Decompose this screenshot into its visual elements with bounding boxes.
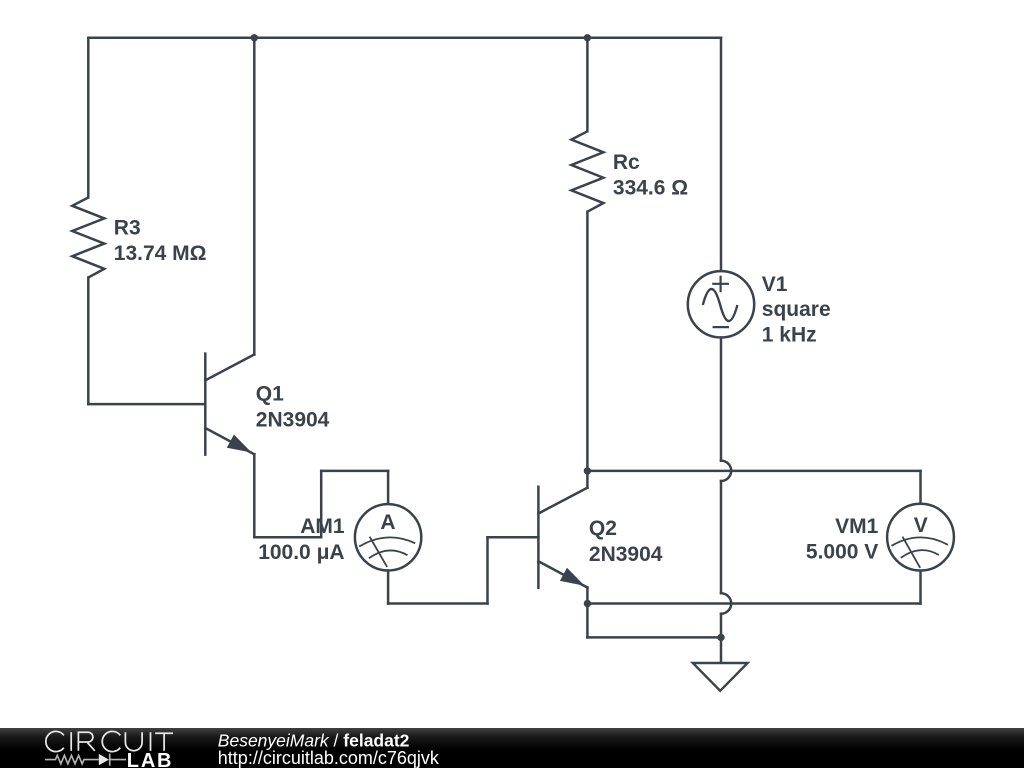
wire ground run [587,636,721,639]
junction dot ground node [717,634,724,641]
wire V1 top drop from top rail [720,38,723,271]
wire left rail upper (top rail to R3 top) [87,38,90,198]
wire Q2 base riser [486,537,489,603]
svg-text:13.74 MΩ: 13.74 MΩ [114,242,207,265]
junction dot top rail / Rc [584,34,591,41]
wire V1 bottom with hop over collector row [720,338,723,461]
svg-text:http://circuitlab.com/c76qjvk: http://circuitlab.com/c76qjvk [218,748,440,768]
CircuitLab logo: CIRCUIT letters [46,731,173,751]
wire collector row (Q2/Rc node to VM1 top) [587,470,920,473]
junction dot Q2 emitter node [584,600,591,607]
svg-text:2N3904: 2N3904 [589,543,663,566]
wire emitter row to AM1 loop [254,536,321,539]
svg-text:2N3904: 2N3904 [256,409,330,432]
wire Q2 emitter lead to emitter node [586,588,589,604]
wire AM1 top lead [387,471,390,504]
junction dot top rail / Q1 collector [251,34,258,41]
resistor R3 [72,198,104,278]
wire emitter row (emitter node to VM1 bottom) [587,602,920,605]
junction dot Q2 collector / Rc [584,467,591,474]
wire Q2 collector lead [586,471,589,488]
svg-text:A: A [380,511,395,534]
wire left rail lower (R3 bottom to Q1 base row) [87,278,90,405]
wire Q1 emitter drop [253,454,256,537]
svg-text:Q1: Q1 [256,382,284,405]
wire Q2 base run [488,536,539,539]
svg-text:V: V [914,514,928,537]
footer bar [0,728,1024,768]
transistor Q1 [205,354,254,455]
svg-text:AM1: AM1 [300,515,345,538]
wire hop arc at collector row [721,461,731,481]
wire AM1 bottom lead [387,571,390,604]
svg-text:Rc: Rc [613,151,640,174]
resistor Rc [571,131,603,211]
svg-text:LAB: LAB [127,750,174,768]
CircuitLab logo: resistor-diode strip [45,754,126,766]
voltmeter VM1 [887,504,954,571]
wire AM1 bottom run [388,602,487,605]
wire top rail [88,37,721,40]
svg-text:100.0 μA: 100.0 μA [258,541,344,564]
voltage source V1 [688,271,754,337]
wire Q1 base run [88,403,205,406]
transistor Q2 [538,487,587,588]
wire Q1 collector riser [253,38,256,355]
svg-text:square: square [762,298,831,321]
wire Rc top lead from top rail [586,38,589,132]
svg-text:V1: V1 [762,273,788,296]
wire emitter node down to ground run [586,604,589,638]
svg-text:1 kHz: 1 kHz [762,324,817,347]
svg-text:VM1: VM1 [835,515,879,538]
wire Rc bottom lead to collector row [586,212,589,471]
wire AM1 top run [321,470,388,473]
wire V1 drop to ground node [720,614,723,638]
svg-text:5.000 V: 5.000 V [806,540,878,563]
wire hop arc at emitter row [721,593,731,613]
wire V1 drop between hops [720,481,723,593]
wire VM1 bottom lead [919,571,922,604]
ground [693,637,748,690]
ammeter AM1 [355,504,421,570]
svg-text:Q2: Q2 [589,517,617,540]
svg-text:R3: R3 [114,217,141,240]
CircuitLab logo: diode triangle [99,754,109,765]
wire VM1 top lead [919,471,922,504]
wire AM1 loop riser [320,471,323,537]
svg-text:334.6 Ω: 334.6 Ω [613,177,688,200]
